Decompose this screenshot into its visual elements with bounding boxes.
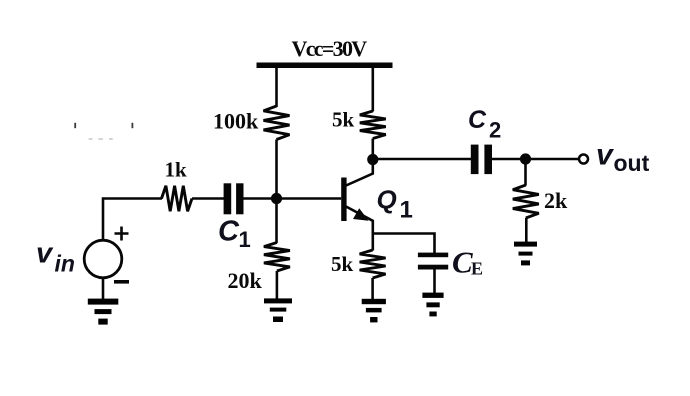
ground below 2k [514, 242, 537, 247]
wire: R 1k to C1 [192, 197, 224, 200]
svg-text:v: v [596, 139, 615, 172]
wire: Vcc rail to R 5k collector [371, 65, 374, 112]
ground below 20k [264, 298, 292, 303]
source vin circle [84, 240, 122, 278]
svg-text:out: out [614, 150, 650, 176]
svg-text:1: 1 [400, 197, 413, 224]
output terminal circle [579, 155, 588, 164]
svg-text:1k: 1k [165, 158, 188, 182]
wire: C2 to output node [492, 158, 526, 161]
wire: R 2k to ground [525, 218, 528, 243]
wire: R 5k to ground [371, 278, 374, 300]
wire: R 20k to ground [276, 271, 279, 300]
wire: Vcc rail to R 100k [275, 65, 278, 107]
stray marks [74, 123, 76, 128]
svg-text:5k: 5k [331, 252, 354, 276]
capacitor CE plates [418, 253, 448, 258]
svg-text:1: 1 [239, 227, 251, 252]
resistor R6 5k emitter [360, 250, 386, 278]
svg-text:in: in [55, 251, 75, 277]
wire: collector node to C2 [373, 158, 471, 161]
transistor Q1 collector lead [346, 159, 373, 186]
wire: output node to terminal [526, 158, 579, 161]
wire: base node to R 20k [275, 199, 278, 244]
resistor R2 5k collector [360, 111, 386, 139]
wire: C1 to base node [244, 197, 277, 200]
wire: vin corner to R 1k [103, 199, 162, 241]
ground below emitter 5k [362, 299, 386, 304]
svg-text:2k: 2k [544, 188, 568, 213]
svg-text:100k: 100k [213, 109, 259, 134]
vin plus sign [115, 227, 129, 241]
capacitor C1 plates [224, 183, 232, 214]
transistor Q1 base bar [341, 178, 346, 222]
node: base junction dot [271, 193, 282, 204]
wire: vin to ground [102, 278, 105, 301]
node: output junction dot [520, 153, 531, 164]
wire: emitter down to R 5k [371, 234, 374, 251]
svg-text:v: v [36, 238, 54, 270]
wire: CE to ground [433, 270, 436, 294]
ground below CE [422, 293, 443, 298]
wire: output node to R 2k [524, 159, 527, 186]
svg-text:E: E [471, 259, 483, 279]
wire: R 100k to base node [275, 140, 278, 199]
svg-text:2: 2 [489, 118, 501, 143]
svg-text:Q: Q [377, 185, 397, 215]
svg-text:Vcc=30V: Vcc=30V [292, 36, 368, 61]
wire: base node to Q1 base [277, 197, 342, 200]
ground below vin [88, 299, 119, 305]
svg-text:C: C [218, 216, 240, 248]
svg-text:C: C [452, 245, 473, 280]
resistor R1 100k [264, 106, 290, 140]
capacitor C2 plates [471, 145, 479, 175]
wire: R 5k to collector node [371, 139, 374, 161]
svg-text:C: C [468, 106, 487, 134]
resistor R5 2k [513, 185, 539, 218]
svg-text:20k: 20k [228, 268, 263, 293]
resistor R4 20k [264, 243, 290, 272]
resistor R3 1k [162, 186, 193, 212]
node: collector junction dot [367, 154, 378, 165]
wire: Q1 emitter to 5k and CE branch [373, 234, 435, 254]
transistor Q1 emitter lead [346, 207, 373, 235]
svg-text:5k: 5k [332, 108, 355, 132]
Vcc power rail bar [257, 63, 393, 69]
vin minus sign [114, 280, 129, 284]
transistor Q1 emitter arrowhead [353, 208, 369, 221]
